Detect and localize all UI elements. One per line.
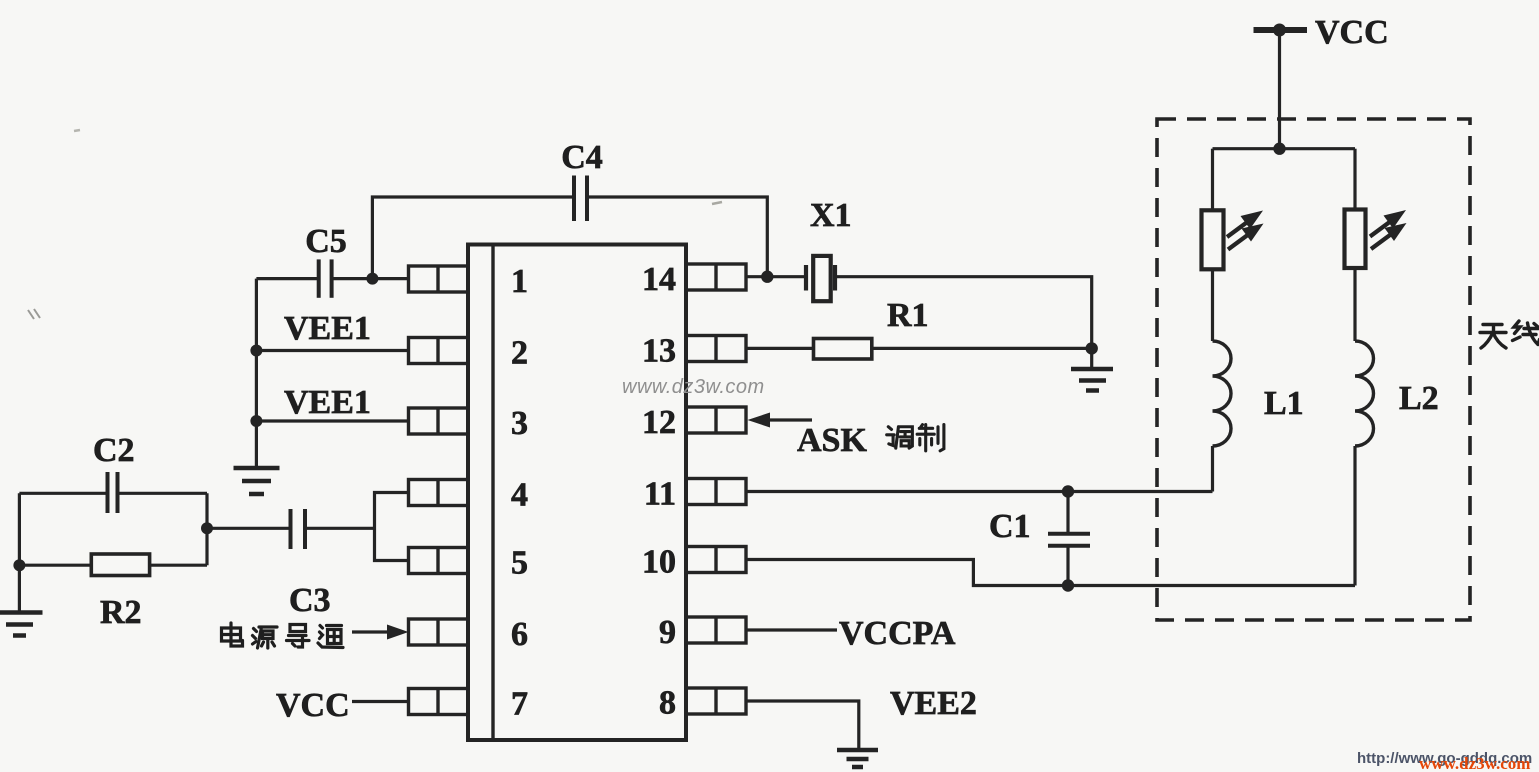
antenna dashed box <box>1157 119 1470 620</box>
node pin14/C4/X1 junction <box>761 271 773 283</box>
svg-text:VCC: VCC <box>1315 14 1389 51</box>
wire left branch lower <box>1211 446 1214 492</box>
radiator element right <box>1345 210 1366 269</box>
wire X1 to ground corner <box>835 277 1092 349</box>
scan speck dash <box>712 202 722 204</box>
wire C4 top net right <box>587 197 767 277</box>
wire C4 top net left <box>372 197 574 279</box>
svg-text:VEE1: VEE1 <box>284 384 371 421</box>
pin 4 pad <box>409 480 469 506</box>
pin 14 pad <box>686 264 746 290</box>
wire pin3 VEE1 <box>256 419 408 422</box>
svg-text:13: 13 <box>642 333 676 370</box>
inductor L2 <box>1355 341 1374 446</box>
label glyph xian of antenna <box>1513 321 1539 345</box>
label glyph dao of power-on <box>287 625 310 648</box>
ground VEE1 bus <box>234 468 280 494</box>
svg-text:L1: L1 <box>1264 385 1304 422</box>
wire left vertical to ground <box>18 493 21 612</box>
node pin1/C4/C5 junction <box>366 273 378 285</box>
label glyph zhi of ASK modulation <box>917 425 944 451</box>
ground R2/C2 <box>0 613 43 636</box>
pin 9 pad <box>686 617 746 643</box>
wire pin13 to R1 <box>746 347 814 350</box>
node C2/R2 left junction <box>13 559 25 571</box>
svg-text:12: 12 <box>642 404 676 441</box>
pin 3 pad <box>409 408 469 434</box>
pin 2 pad <box>409 338 469 364</box>
pin 10 pad <box>686 547 746 573</box>
svg-text:11: 11 <box>644 476 676 513</box>
IC U1 body <box>468 245 686 741</box>
pin 1 pad <box>409 266 469 292</box>
pin 11 pad <box>686 479 746 505</box>
ground X1/R1 <box>1071 348 1113 390</box>
pin 13 pad <box>686 336 746 362</box>
svg-text:L2: L2 <box>1399 380 1439 417</box>
svg-text:ASK: ASK <box>797 422 867 459</box>
scan speck dot <box>74 130 80 131</box>
svg-text:VEE1: VEE1 <box>284 310 371 347</box>
wire pin8 VEE2 <box>746 701 859 748</box>
crystal X1 <box>806 256 835 301</box>
label glyph tian of antenna <box>1480 325 1506 349</box>
CJK glyphs hand drawn <box>222 321 1539 648</box>
scan speck double tick <box>28 309 40 319</box>
svg-text:C4: C4 <box>561 139 603 176</box>
svg-text:10: 10 <box>642 544 676 581</box>
label glyph tong of power-on <box>318 626 343 648</box>
svg-text:6: 6 <box>511 616 528 653</box>
wire R1 right <box>872 347 1092 350</box>
svg-text:3: 3 <box>511 405 528 442</box>
svg-text:C5: C5 <box>305 223 347 260</box>
capacitor C2 <box>108 472 118 513</box>
svg-text:7: 7 <box>511 686 528 723</box>
wire pin11 net <box>746 490 1213 493</box>
pin 8 pad <box>686 688 746 714</box>
capacitor C3 <box>291 509 306 549</box>
node C1 top junction <box>1062 485 1074 497</box>
label glyph tiao of ASK modulation <box>887 427 913 448</box>
capacitor C5 <box>319 259 332 297</box>
label glyph dian of power-on <box>222 623 243 646</box>
ground VEE2 <box>837 750 878 767</box>
label glyph yuan of power-on <box>253 627 278 648</box>
wire C2/R2 right vertical <box>205 493 208 565</box>
wire pin1 net <box>256 277 408 280</box>
svg-text:R1: R1 <box>887 297 929 334</box>
wire pin10 net <box>746 560 1355 586</box>
wire C3 left <box>207 527 291 530</box>
node VCC dot <box>1273 24 1286 37</box>
svg-text:VEE2: VEE2 <box>890 685 977 722</box>
arrow ASK into pin 12 <box>748 413 813 428</box>
wire pins 4-5 tie <box>375 493 409 561</box>
capacitor C1 <box>1048 492 1090 586</box>
svg-text:X1: X1 <box>810 197 852 234</box>
pin 7 pad <box>409 689 469 715</box>
node C3 junction <box>201 522 213 534</box>
wire VCC pin7 <box>352 700 409 703</box>
radiator element left <box>1202 210 1224 269</box>
pin 6 pad <box>409 619 469 645</box>
VCC rail bar <box>1254 27 1308 33</box>
wire C3 right <box>305 527 375 530</box>
node VEE1 junction pin3 <box>250 415 262 427</box>
svg-text:VCC: VCC <box>276 687 350 724</box>
svg-text:C3: C3 <box>289 582 331 619</box>
svg-text:R2: R2 <box>100 594 142 631</box>
wire antenna top <box>1213 147 1356 150</box>
svg-text:1: 1 <box>511 263 528 300</box>
pin 5 pad <box>409 548 469 574</box>
emission arrows right <box>1370 210 1407 249</box>
node VEE1 junction pin2 <box>250 345 262 357</box>
svg-text:14: 14 <box>642 261 676 298</box>
node antenna junction <box>1273 143 1285 155</box>
capacitor C4 <box>574 176 587 222</box>
svg-text:9: 9 <box>659 614 676 651</box>
svg-text:5: 5 <box>511 545 528 582</box>
wire right branch upper <box>1353 149 1356 209</box>
pin 12 pad <box>686 407 746 433</box>
svg-text:VCCPA: VCCPA <box>839 615 956 652</box>
wire VCC down <box>1278 30 1281 149</box>
wire left branch mid <box>1211 269 1214 341</box>
resistor R2 <box>19 554 207 576</box>
wire left branch upper <box>1211 149 1214 210</box>
emission arrows left <box>1227 211 1264 250</box>
wire right branch lower <box>1353 446 1356 586</box>
inductor L1 <box>1213 341 1232 446</box>
svg-text:www.dz3w.com: www.dz3w.com <box>622 376 765 398</box>
svg-text:8: 8 <box>659 685 676 722</box>
svg-text:www.dz3w.com: www.dz3w.com <box>1419 754 1530 772</box>
svg-text:4: 4 <box>511 477 528 514</box>
svg-text:2: 2 <box>511 335 528 372</box>
node C1 bottom junction <box>1062 579 1074 591</box>
svg-text:C1: C1 <box>989 508 1031 545</box>
resistor R1 <box>814 339 872 360</box>
svg-text:C2: C2 <box>93 432 135 469</box>
wire right branch mid <box>1353 268 1356 341</box>
wire VEE1 vertical bus <box>255 279 258 467</box>
arrow into pin 6 <box>352 625 409 640</box>
wire pin9 VCCPA <box>746 628 837 631</box>
wire pin14 to X1 <box>746 275 806 278</box>
node X1/R1 ground junction <box>1086 342 1098 354</box>
wire pin2 VEE1 <box>256 349 408 352</box>
wire C2 top <box>19 492 207 495</box>
